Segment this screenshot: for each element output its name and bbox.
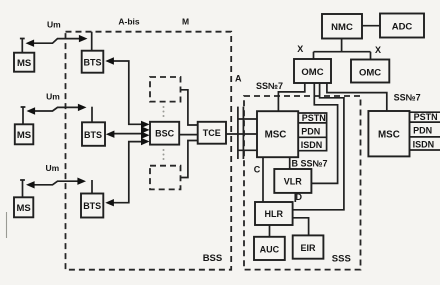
svg-text:X: X <box>297 44 303 54</box>
wire BTS2 to BSC <box>112 133 144 135</box>
MS box 3 <box>14 197 33 217</box>
antenna MS1 <box>20 39 25 53</box>
wire BTS3 to BSC <box>111 142 143 203</box>
wire B interface <box>289 157 291 169</box>
svg-text:SS№7: SS№7 <box>394 93 421 103</box>
ADC box <box>380 14 424 38</box>
svg-text:HLR: HLR <box>265 209 284 219</box>
MSC box <box>257 111 298 157</box>
NMC box <box>322 14 362 39</box>
svg-text:ISDN: ISDN <box>301 140 323 150</box>
VLR box <box>274 169 311 193</box>
radio link arrow 3 <box>32 181 80 185</box>
TCE box <box>198 122 226 144</box>
MSC right box <box>368 111 409 156</box>
BTS box 1 <box>82 51 104 73</box>
dots above BSC <box>163 106 165 108</box>
connector top dashed box <box>181 90 199 125</box>
svg-text:OMC: OMC <box>301 67 323 78</box>
wire OMC to VLR <box>311 83 337 183</box>
wire HLR to AUC <box>269 225 271 237</box>
PSTN/PDN/ISDN stack left MSC <box>298 113 326 151</box>
svg-text:MSC: MSC <box>265 129 287 140</box>
wire OMC to HLR <box>293 83 344 210</box>
svg-text:ISDN: ISDN <box>413 139 435 149</box>
EIR box <box>293 235 324 258</box>
svg-text:PDN: PDN <box>413 126 432 136</box>
wire BSC-TCE <box>179 134 198 136</box>
svg-text:PSTN: PSTN <box>302 113 326 123</box>
svg-text:NMC: NMC <box>331 22 353 33</box>
svg-text:Um: Um <box>47 19 61 29</box>
wire HLR to EIR <box>293 218 309 236</box>
antenna MS3 <box>20 180 25 197</box>
wire BTS1 to BSC <box>111 61 143 124</box>
svg-text:MS: MS <box>17 130 31 141</box>
wire OMC to right MSC <box>327 83 387 111</box>
svg-text:X: X <box>375 45 381 55</box>
svg-text:EIR: EIR <box>300 243 316 253</box>
dots below BSC <box>163 149 165 151</box>
antenna BTS2 <box>91 107 93 123</box>
svg-text:OMC: OMC <box>359 67 381 78</box>
wire C interface <box>262 157 264 202</box>
dashed box below BSC <box>150 166 181 190</box>
svg-text:D: D <box>296 192 303 202</box>
svg-text:A-bis: A-bis <box>118 17 140 27</box>
dashed box above BSC <box>150 77 181 102</box>
svg-text:AUC: AUC <box>260 244 280 254</box>
svg-text:ADC: ADC <box>392 22 413 33</box>
svg-text:A: A <box>235 74 242 84</box>
radio link arrow 1 <box>31 39 81 44</box>
arrowheads into BSC <box>141 121 150 128</box>
svg-text:MS: MS <box>17 58 31 69</box>
BSC box <box>150 122 179 145</box>
svg-text:MS: MS <box>16 203 30 214</box>
wire OMC to MSC (SS7) <box>278 83 304 111</box>
connector bottom dashed box <box>181 141 199 178</box>
wire NMC to OMCs <box>314 39 371 60</box>
svg-text:MSC: MSC <box>378 129 400 140</box>
svg-text:BSS: BSS <box>203 253 223 264</box>
BTS box 3 <box>81 194 103 218</box>
wire NMC-ADC <box>362 25 380 27</box>
svg-text:Um: Um <box>46 92 60 102</box>
svg-text:TCE: TCE <box>203 128 221 138</box>
svg-text:BTS: BTS <box>84 57 102 67</box>
svg-text:C: C <box>254 165 261 175</box>
wire D interface <box>294 193 296 202</box>
antenna BTS3 <box>91 180 93 194</box>
BSS dashed region <box>66 32 232 270</box>
antenna BTS1 <box>91 32 93 51</box>
svg-text:BSC: BSC <box>155 129 175 139</box>
svg-text:PSTN: PSTN <box>414 112 438 122</box>
stub wires MSC left <box>238 118 257 120</box>
PSTN/PDN/ISDN lines right MSC <box>410 111 440 113</box>
svg-text:Um: Um <box>45 163 59 173</box>
MS box 2 <box>15 124 34 144</box>
svg-text:SS№7: SS№7 <box>256 81 283 91</box>
svg-text:B SS№7: B SS№7 <box>292 158 328 168</box>
SSS dashed region <box>244 96 361 270</box>
wire TCE to MSC <box>226 133 257 135</box>
svg-text:PDN: PDN <box>301 126 320 136</box>
scan artifact line <box>6 212 8 238</box>
HLR box <box>255 202 293 225</box>
BTS box 2 <box>82 122 105 146</box>
radio link arrow 2 <box>32 107 80 111</box>
antenna MS2 <box>21 107 26 124</box>
AUC box <box>254 237 285 260</box>
MS box 1 <box>14 53 34 72</box>
OMC box left <box>294 59 331 83</box>
OMC box right <box>351 60 389 83</box>
svg-text:VLR: VLR <box>284 177 303 187</box>
svg-text:SSS: SSS <box>332 254 351 265</box>
crossing bars <box>237 107 239 159</box>
svg-text:BTS: BTS <box>84 130 102 140</box>
svg-text:M: M <box>182 17 189 27</box>
svg-text:BTS: BTS <box>83 201 101 211</box>
